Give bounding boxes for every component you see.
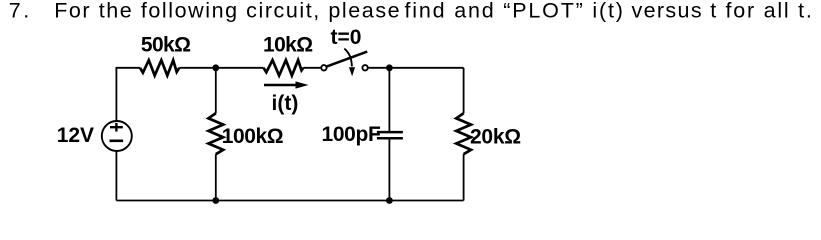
resistor R3 100k vertical zigzag with leads <box>215 68 217 114</box>
svg-text:find and “PLOT” i(t): find and “PLOT” i(t) <box>405 0 625 22</box>
switch closing arc arrow t=0 <box>344 49 355 77</box>
switch blade <box>327 52 367 67</box>
resistor R1 50k zigzag <box>140 60 179 75</box>
node A junction dot top of 100k <box>212 64 219 71</box>
svg-text:t=0: t=0 <box>331 26 362 49</box>
svg-text:20kΩ: 20kΩ <box>470 125 521 148</box>
svg-text:100kΩ: 100kΩ <box>222 125 283 148</box>
wire top-left from source loop corner to 50k resistor <box>116 68 140 121</box>
resistor R4 20k vertical zigzag with leads <box>463 68 465 114</box>
wire source bottom to bottom-left corner <box>115 151 117 201</box>
junction dot bottom of capacitor <box>386 197 393 204</box>
voltage source plus sign <box>110 123 123 132</box>
svg-text:10kΩ: 10kΩ <box>263 34 312 57</box>
voltage source V1 12V circle <box>102 121 132 151</box>
title text <box>9 0 814 22</box>
wire switch right terminal to top-right corner <box>368 67 463 69</box>
wire between 50k and 10k through node A <box>179 67 263 69</box>
capacitor C1 100pF <box>388 68 390 131</box>
node B junction dot top of capacitor <box>386 64 393 71</box>
resistor R2 10k zigzag <box>264 60 304 76</box>
svg-text:7.: 7. <box>9 0 32 22</box>
svg-text:for all t.: for all t. <box>726 0 814 22</box>
svg-text:i(t): i(t) <box>272 92 299 115</box>
switch S1 left terminal circle <box>321 65 326 70</box>
junction dot bottom of 100k <box>212 197 219 204</box>
voltage source minus sign <box>110 140 124 143</box>
svg-text:100pF: 100pF <box>322 123 381 146</box>
switch right terminal circle <box>362 65 367 70</box>
current arrow i(t) <box>264 81 309 88</box>
wire 10k to switch left terminal <box>303 67 320 69</box>
svg-text:12V: 12V <box>57 124 94 147</box>
svg-text:versus t: versus t <box>632 0 718 22</box>
svg-text:50kΩ: 50kΩ <box>141 34 190 57</box>
bottom wire <box>116 200 463 202</box>
svg-text:For the following circuit, ple: For the following circuit, please <box>54 0 401 22</box>
